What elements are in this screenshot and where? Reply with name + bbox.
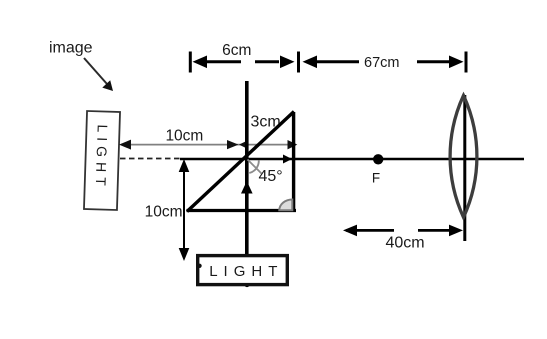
svg-text:10cm: 10cm [165,128,203,145]
normal line at mirror [248,160,262,174]
svg-text:F: F [372,171,380,186]
svg-text:67cm: 67cm [364,55,399,71]
vertical light ray [245,81,249,263]
svg-text:image: image [49,40,93,57]
dimension 10cm (horizontal, image distance) [119,128,297,150]
right-angle marker [279,200,292,211]
lens principal axis line [463,95,466,241]
mirror hypotenuse (45°) [187,112,294,212]
svg-text:10cm: 10cm [145,204,183,221]
45° arc [249,160,259,173]
prism right edge [292,112,295,212]
leader arrow from image label [84,58,113,91]
prism bottom edge [187,209,297,212]
dashed optical axis segment [120,158,180,160]
ray dot at source box bottom [244,282,249,287]
image box (tilted LIGHT box) [84,111,120,210]
focal point F [373,154,383,164]
vertical dimension 10cm [145,159,190,261]
svg-text:LIGHT: LIGHT [93,124,111,191]
light source box [197,256,287,285]
svg-text:6cm: 6cm [222,42,251,59]
svg-text:LIGHT: LIGHT [209,263,283,280]
dimension 6cm [193,42,295,68]
axis direction arrowhead [283,155,292,164]
top dimension ticks [189,52,192,73]
dimension 67cm [303,55,464,71]
svg-text:40cm: 40cm [386,235,425,252]
convex lens [450,96,477,218]
svg-text:45°: 45° [259,168,283,185]
optical axis [180,158,524,161]
dimension 40cm [343,225,463,252]
ray arrowhead (upward) [241,181,253,194]
nub on left border [197,264,201,268]
